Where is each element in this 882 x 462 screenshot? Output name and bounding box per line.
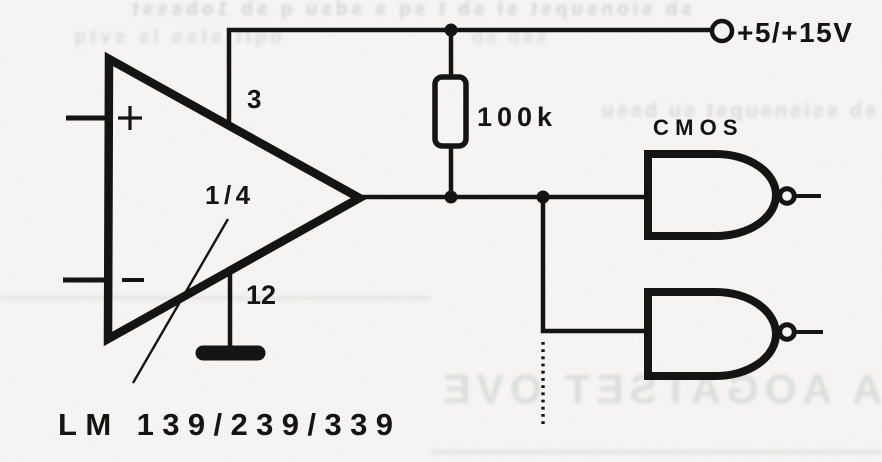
wire resistor top: [449, 30, 454, 79]
wire pin 12 to ground: [228, 272, 233, 349]
wire resistor bottom: [449, 145, 454, 199]
junction dot V+ rail / resistor: [445, 24, 458, 37]
resistor R 100k body: [435, 77, 466, 146]
svg-text:LM 139/239/339: LM 139/239/339: [58, 407, 401, 442]
svg-text:sb sionsupst sl sb t sq: sb sionsupst sl sb t sq s sdsu q sb 1obs…: [128, 0, 692, 20]
dotted continuation wire: [541, 342, 544, 428]
ground: [203, 346, 258, 361]
NAND gate A output wire: [796, 194, 821, 198]
svg-text:CMOS: CMOS: [653, 115, 744, 140]
+ symbol (non-inverting input): [118, 106, 142, 130]
junction dot output/branch node: [537, 191, 550, 204]
inverting input wire: [63, 278, 112, 283]
power terminal circle: [712, 21, 732, 41]
svg-text:3: 3: [247, 84, 261, 114]
junction dot output/resistor node: [445, 191, 458, 204]
branch wire to second gate: [543, 197, 650, 331]
NAND gate A inverter bubble: [780, 189, 795, 204]
svg-text:1/4: 1/4: [205, 180, 255, 210]
NAND gate B inverter bubble: [780, 325, 795, 340]
svg-text:12: 12: [246, 280, 276, 310]
NAND gate B output wire: [796, 330, 823, 334]
comparator output wire: [362, 195, 650, 200]
svg-text:+5/+15V: +5/+15V: [737, 17, 853, 48]
− symbol (inverting input): [122, 278, 144, 282]
wire pin 3 up to V+ rail: [229, 30, 712, 122]
op-amp U1 (1/4 LM139/239/339 comparator): [108, 59, 360, 339]
NAND gate B body: [648, 292, 776, 376]
non-inverting input wire: [66, 116, 112, 121]
svg-text:100k: 100k: [477, 102, 557, 132]
NAND gate A body: [648, 154, 776, 236]
slash across op-amp (1/4 indicator): [133, 219, 228, 383]
